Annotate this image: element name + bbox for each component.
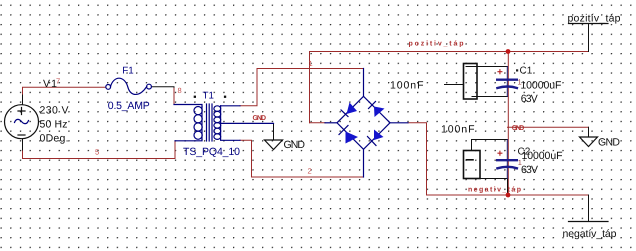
svg-text:5: 5 (95, 148, 99, 157)
svg-text:TS_PQ4_10: TS_PQ4_10 (183, 146, 240, 158)
svg-text:GND: GND (253, 115, 267, 122)
svg-text:negatív_táp: negatív_táp (563, 228, 617, 240)
svg-text:+: + (497, 149, 503, 160)
svg-text:C1: C1 (520, 66, 533, 77)
svg-text:GND: GND (512, 125, 525, 132)
svg-text:F1: F1 (122, 66, 133, 77)
svg-text:230 V: 230 V (40, 105, 69, 117)
svg-text:100nF: 100nF (441, 124, 475, 136)
svg-text:negativ_táp: negativ_táp (468, 186, 521, 194)
svg-text:50 Hz: 50 Hz (40, 119, 68, 131)
svg-text:10000uF: 10000uF (520, 80, 561, 92)
svg-text:63V: 63V (521, 93, 538, 105)
svg-text:1: 1 (518, 158, 522, 167)
svg-text:8: 8 (178, 86, 182, 95)
svg-text:2: 2 (308, 167, 312, 176)
svg-text:63V: 63V (521, 164, 538, 176)
svg-text:7: 7 (56, 76, 60, 85)
svg-text:pozitív_táp: pozitív_táp (568, 13, 621, 25)
svg-text:T1: T1 (203, 91, 214, 102)
svg-text:GND: GND (284, 139, 306, 151)
svg-text:GND: GND (598, 137, 620, 149)
svg-text:100nF: 100nF (390, 80, 424, 92)
svg-text:0Deg.: 0Deg. (40, 133, 69, 145)
svg-text:1: 1 (518, 78, 522, 87)
svg-text:+: + (497, 67, 503, 78)
svg-text:0.5_AMP: 0.5_AMP (108, 100, 150, 112)
svg-text:pozitiv_táp: pozitiv_táp (409, 39, 464, 47)
svg-text:10000uF: 10000uF (522, 150, 563, 162)
svg-text:1: 1 (309, 59, 313, 68)
